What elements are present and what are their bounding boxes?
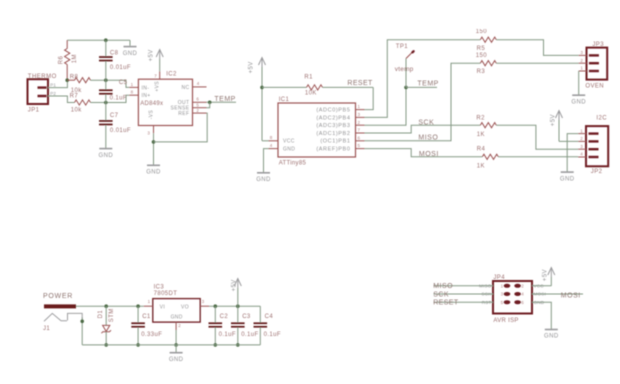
IC2 pin NC 4: [193, 86, 207, 88]
microcontroller IC1 ATtiny85 box: [278, 103, 356, 157]
node junction C3 top +5V: [236, 304, 240, 308]
wire rail to GND symbol: [175, 345, 177, 353]
svg-text:R7: R7: [70, 94, 79, 100]
IC1 pin (ADC1)PB2 7: [356, 132, 365, 134]
node junction D1 bottom: [104, 343, 108, 347]
resistor R8 10k: [75, 78, 91, 83]
JP2 pin 3: [578, 148, 586, 150]
wire RESET into JP4: [434, 301, 494, 303]
node junction C3 bottom: [236, 343, 240, 347]
IC2 pin REF 2: [193, 112, 207, 114]
wire IC3 GND to rail: [175, 330, 177, 345]
wire RESET to pin1: [365, 87, 374, 109]
svg-text:(AREF)PB0: (AREF)PB0: [316, 147, 350, 153]
svg-text:(ADC3)PB3: (ADC3)PB3: [316, 123, 350, 129]
svg-text:JP4: JP4: [493, 275, 505, 281]
svg-text:0.1uF: 0.1uF: [110, 95, 127, 101]
wire R5 to JP3 pin3: [496, 40, 578, 56]
svg-text:+5V: +5V: [542, 269, 548, 281]
wire JP1 P1 to node: [48, 80, 67, 87]
svg-text:GND: GND: [560, 176, 575, 182]
svg-text:C3: C3: [242, 314, 251, 320]
svg-text:1K: 1K: [477, 164, 485, 170]
wire top rail power: [76, 305, 144, 307]
power +5V at JP4: [550, 268, 552, 278]
JP3 pin 1: [579, 70, 587, 72]
IC3 pin VO 3: [200, 305, 209, 307]
svg-text:+5V: +5V: [149, 49, 155, 61]
svg-text:(ADC1)PB2: (ADC1)PB2: [316, 131, 350, 137]
resistor R7 10k: [75, 100, 91, 105]
svg-text:C2: C2: [220, 314, 229, 320]
IC1 pin VCC 8: [269, 140, 279, 142]
IC1 pin (OC1)PB1 6: [356, 140, 365, 142]
capacitor C8 0.01uF: [105, 40, 107, 56]
svg-text:JP2: JP2: [591, 169, 603, 175]
svg-text:R1: R1: [304, 74, 313, 80]
test point TP1 vtemp: [405, 59, 407, 88]
svg-text:P1: P1: [50, 82, 56, 87]
capacitor C3 0.1uF: [237, 306, 239, 322]
svg-text:R4: R4: [477, 147, 486, 153]
wire JP2 pin2 to +5V: [559, 140, 578, 142]
svg-text:POWER: POWER: [43, 293, 73, 300]
node junction C5 bottom C7 top: [104, 101, 108, 105]
node junction C2 bottom: [214, 343, 218, 347]
wire SCK into JP4: [434, 293, 494, 295]
svg-text:GND: GND: [99, 153, 114, 159]
svg-text:150: 150: [476, 53, 487, 59]
svg-text:0.1uF: 0.1uF: [219, 332, 236, 338]
J1 jack sleeve box: [68, 313, 83, 321]
ground top right of C8: [129, 40, 131, 46]
node junction C8 top: [104, 38, 108, 42]
svg-text:AD849x: AD849x: [140, 101, 163, 107]
svg-text:MISO: MISO: [418, 135, 438, 142]
resistor R5 150: [480, 37, 496, 42]
ground below IC1: [257, 172, 270, 174]
resistor R2 1K: [480, 123, 496, 128]
svg-text:JP1: JP1: [28, 108, 40, 114]
svg-text:VI: VI: [160, 304, 166, 310]
svg-text:+5V: +5V: [550, 114, 556, 126]
svg-text:GND: GND: [171, 314, 183, 320]
wire R3 to JP3 pin2: [496, 62, 578, 64]
IC2 pin +VS 7: [159, 71, 161, 79]
connector JP4 AVRISP: [493, 281, 532, 314]
svg-text:C7: C7: [110, 113, 119, 119]
power +5V above IC2: [159, 50, 161, 60]
svg-text:REF: REF: [178, 111, 189, 117]
svg-text:IN-: IN-: [142, 85, 150, 91]
wire JP4 VCC to +5V: [532, 285, 551, 287]
wire rail2 to IC2 IN+: [91, 95, 130, 102]
node junction TEMP TP1: [404, 86, 408, 90]
svg-text:0.01uF: 0.01uF: [110, 65, 131, 71]
IC3 pin VI 1: [144, 305, 153, 307]
svg-text:R8: R8: [70, 75, 79, 81]
wire TEMP net to PB3: [365, 87, 407, 125]
IC3 pin GND 2: [175, 322, 177, 330]
svg-text:0.1uF: 0.1uF: [241, 332, 258, 338]
resistor R4 1K: [482, 154, 498, 159]
svg-text:AVR ISP: AVR ISP: [493, 318, 518, 324]
svg-text:TP1: TP1: [396, 44, 408, 50]
wire IC1 GND: [264, 149, 269, 173]
wire rail1 to IC2 IN-: [91, 80, 130, 87]
wire OUT to TEMP label: [207, 101, 237, 103]
ground below C7: [99, 148, 112, 150]
svg-text:150: 150: [476, 29, 487, 35]
J1 jack spring contact: [44, 313, 67, 321]
capacitor C5 0.1uF: [105, 80, 107, 89]
svg-text:R5: R5: [477, 46, 486, 52]
svg-text:TEMP: TEMP: [214, 96, 235, 103]
svg-text:MOSI: MOSI: [561, 292, 581, 299]
ground below JP2: [561, 171, 574, 173]
wire REF to ground loop: [154, 113, 208, 142]
IC2 pin IN+ 8: [129, 94, 138, 96]
capacitor C4 0.1uF: [259, 306, 261, 322]
connector J1 power jack bar: [44, 304, 76, 308]
JP4 pads: [504, 284, 511, 288]
wire +5V to VCC pin: [262, 140, 269, 142]
wire -VS to ground: [153, 133, 155, 165]
resistor R6 1M vertical: [66, 40, 68, 48]
svg-text:GND: GND: [146, 170, 161, 176]
svg-text:JP3: JP3: [592, 42, 604, 48]
node junction C1 top: [136, 304, 140, 308]
svg-text:SCK: SCK: [433, 291, 449, 298]
node junction IC3 gnd rail: [174, 343, 178, 347]
svg-text:IN+: IN+: [142, 93, 151, 99]
wire bottom rail power: [82, 344, 260, 346]
svg-text:GND: GND: [256, 177, 271, 183]
svg-text:10K: 10K: [305, 90, 317, 96]
node junction +5V R1: [260, 86, 264, 90]
svg-text:RESET: RESET: [433, 300, 459, 307]
JP3 pin 2: [579, 62, 587, 64]
resistor R1 10K: [262, 86, 307, 88]
capacitor C2 0.1uF: [214, 306, 216, 322]
IC2 pin IN- 1: [129, 86, 138, 88]
svg-text:SCK: SCK: [418, 120, 434, 127]
svg-text:MOSI: MOSI: [419, 151, 439, 158]
wire JP2 pin1 to ground: [567, 134, 578, 172]
svg-text:C5: C5: [119, 80, 128, 86]
JP2 pin 1: [578, 133, 586, 135]
svg-text:IC3: IC3: [154, 284, 165, 290]
svg-text:STM: STM: [109, 308, 115, 322]
capacitor C1 0.33uF: [137, 306, 139, 322]
svg-text:NC: NC: [181, 85, 189, 91]
svg-text:1K: 1K: [477, 132, 485, 138]
svg-text:J1: J1: [43, 326, 50, 332]
IC2 pin OUT 6: [193, 101, 207, 103]
ground below JP3: [572, 94, 585, 96]
svg-text:+5V: +5V: [248, 61, 254, 73]
JP2 pin 2: [578, 140, 586, 142]
svg-text:+VS: +VS: [155, 81, 161, 92]
svg-text:0.01uF: 0.01uF: [110, 128, 131, 134]
svg-text:VO: VO: [181, 304, 189, 310]
svg-text:(ADC2)PB4: (ADC2)PB4: [316, 115, 350, 121]
wire top rail thermo: [67, 39, 130, 41]
node junction C1 bottom: [136, 343, 140, 347]
IC1 pin (ADC0)PB5 1: [356, 109, 365, 111]
svg-text:GND: GND: [123, 51, 138, 57]
svg-text:GND: GND: [283, 147, 295, 153]
svg-text:+5V: +5V: [231, 279, 237, 291]
node junction D1 top: [104, 304, 108, 308]
svg-text:C1: C1: [142, 314, 151, 320]
wire JP3 pin1 to ground: [578, 71, 580, 95]
JP2 pin 4: [578, 156, 586, 158]
IC1 pin (ADC3)PB3 2: [356, 124, 365, 126]
svg-text:OVEN: OVEN: [585, 83, 604, 89]
svg-text:0.1uF: 0.1uF: [264, 332, 281, 338]
svg-text:R6: R6: [59, 55, 65, 64]
wire MOSI net: [365, 149, 483, 157]
svg-text:IC2: IC2: [166, 72, 177, 78]
power +5V at JP2: [558, 111, 560, 121]
capacitor C7 0.01uF: [105, 103, 107, 121]
svg-text:VCC: VCC: [283, 139, 295, 145]
ground below IC2: [147, 164, 160, 166]
svg-text:C8: C8: [110, 50, 119, 56]
svg-text:RESET: RESET: [347, 80, 373, 87]
resistor R3 150: [480, 61, 496, 66]
IC2 pin SENSE 5: [193, 107, 207, 109]
connector JP3 OVEN: [587, 48, 608, 80]
IC1 pin (AREF)PB0 5: [356, 148, 365, 150]
wire J1 to bottom rail: [81, 318, 83, 345]
wire PB4 to R5 150: [365, 40, 481, 118]
svg-text:THERMO: THERMO: [28, 74, 57, 80]
svg-text:D1: D1: [98, 310, 104, 319]
wire top rail 5V side: [209, 305, 260, 307]
op-amp IC2 AD8495 box: [138, 79, 192, 125]
svg-text:0.33uF: 0.33uF: [141, 332, 162, 338]
wire TEMP label segment: [406, 86, 437, 88]
ground below JP4: [545, 329, 558, 331]
JP3 pin 3: [579, 54, 587, 56]
connector JP2 I2C: [586, 126, 608, 166]
wire SCK net: [365, 125, 481, 133]
ground below IC3: [170, 352, 183, 354]
wire JP1 P2 to R7: [48, 96, 75, 103]
IC2 pin -VS 3: [153, 126, 155, 134]
node junction R6 R8 P1: [65, 78, 69, 82]
svg-text:R3: R3: [477, 69, 486, 75]
wire MISO net to R3: [365, 63, 481, 141]
regulator IC3 78L05DT: [153, 299, 200, 323]
svg-text:GND: GND: [571, 99, 586, 105]
node junction C2 top: [214, 304, 218, 308]
svg-text:R2: R2: [476, 116, 485, 122]
wire MISO into JP4: [434, 285, 494, 287]
svg-text:(ADC0)PB5: (ADC0)PB5: [316, 108, 350, 114]
node junction REF GND: [152, 140, 156, 144]
wire SENSE to OUT: [207, 102, 210, 107]
svg-text:C4: C4: [265, 314, 274, 320]
svg-text:7805DT: 7805DT: [154, 291, 178, 297]
svg-text:vtemp: vtemp: [395, 66, 414, 73]
svg-text:GND: GND: [169, 357, 184, 363]
IC1 pin GND 4: [269, 148, 279, 150]
svg-text:I2C: I2C: [596, 115, 607, 121]
svg-text:MISO: MISO: [433, 283, 453, 290]
wire R4 to JP2 pin4: [498, 156, 578, 158]
svg-text:-VS: -VS: [148, 110, 154, 120]
power +5V left of IC1: [261, 58, 263, 68]
svg-text:IC1: IC1: [279, 97, 290, 103]
svg-text:GND: GND: [544, 334, 559, 340]
svg-text:(OC1)PB1: (OC1)PB1: [320, 139, 350, 145]
svg-text:P2: P2: [50, 91, 56, 96]
wire R2 to JP2 pin3: [496, 125, 578, 149]
svg-text:ATTiny85: ATTiny85: [279, 161, 307, 167]
IC1 pin (ADC2)PB4 3: [356, 116, 365, 118]
svg-text:1M: 1M: [72, 54, 78, 63]
wire JP4 GND: [532, 302, 551, 329]
svg-text:TEMP: TEMP: [417, 80, 438, 87]
wire JP4 MOSI: [532, 293, 583, 295]
connector JP1 THERMO: [28, 79, 49, 104]
diode D1 zener: [105, 306, 107, 325]
svg-text:10k: 10k: [71, 107, 82, 113]
node junction C5 top C8 bottom: [104, 78, 108, 82]
power +5V main: [237, 279, 239, 289]
